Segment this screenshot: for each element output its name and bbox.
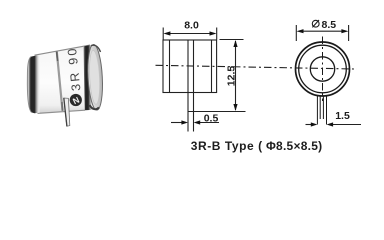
logo — [70, 94, 82, 106]
diameter symbol slash — [312, 20, 319, 27]
extension line left of lead — [316, 96, 318, 125]
arrowhead right — [341, 29, 348, 33]
extension line right — [348, 25, 350, 41]
cap line left — [169, 40, 171, 93]
left end cap — [27, 55, 39, 113]
arrowhead down — [233, 104, 237, 111]
lead wire right line — [193, 93, 195, 132]
diameter symbol circle — [312, 20, 319, 27]
lead tab dark edge — [64, 98, 67, 126]
extension line right — [216, 28, 218, 40]
extension line left — [295, 25, 297, 41]
leader line left — [171, 122, 182, 124]
svg-text:8.5: 8.5 — [322, 19, 337, 31]
arrowhead pointing left — [194, 120, 201, 124]
crosshair — [322, 37, 324, 102]
leader line right — [333, 124, 361, 126]
svg-text:1.5: 1.5 — [335, 110, 350, 122]
diameter 8.5 dimension — [296, 25, 348, 41]
arrowhead pointing left — [327, 122, 334, 126]
photo of component — [27, 44, 104, 126]
extension line right of lead — [326, 96, 328, 125]
component body (white ceramic) — [35, 45, 97, 114]
end face bottom shadow arc — [90, 105, 100, 109]
arrowhead pointing right — [311, 122, 318, 126]
arrowhead left — [297, 29, 304, 33]
inner circle — [310, 57, 334, 81]
end face inner ring — [88, 50, 101, 104]
body rectangle — [163, 40, 217, 93]
lead tab — [64, 98, 70, 126]
leader line left — [306, 124, 312, 126]
1.5 dimension — [306, 122, 362, 126]
lead wire left line — [319, 96, 321, 119]
center electrode seam — [57, 52, 63, 111]
end face ellipse — [86, 44, 104, 110]
right end cap band — [83, 45, 91, 110]
center electrode line left — [187, 40, 189, 93]
svg-text:0.5: 0.5 — [204, 113, 219, 125]
svg-text:8.0: 8.0 — [184, 20, 199, 32]
center electrode line right — [193, 40, 195, 93]
bottom outline — [38, 110, 86, 113]
left end cap rim outline — [27, 57, 31, 113]
8.0 dimension — [163, 28, 217, 40]
dimension line — [299, 30, 346, 32]
extension line bottom — [188, 111, 246, 113]
lead wire left line — [187, 93, 189, 132]
extension line left — [162, 28, 164, 40]
svg-text:12.5: 12.5 — [226, 66, 238, 87]
arrowhead right — [210, 31, 217, 35]
top outline — [35, 45, 91, 55]
end face top rim arc — [91, 45, 101, 52]
leader line right — [200, 122, 219, 124]
arrowhead pointing right — [181, 120, 188, 124]
arrowhead left — [163, 31, 170, 35]
center line dash-dot (continuous to top view) — [156, 65, 358, 69]
lead wire right line — [322, 96, 324, 119]
dimension line — [165, 33, 215, 35]
12.5 dimension — [188, 40, 246, 112]
arrowhead up — [233, 40, 237, 47]
dimension line — [235, 41, 237, 110]
extension line top — [220, 39, 244, 41]
second circle — [299, 45, 347, 93]
outer circle — [296, 42, 350, 96]
svg-text:3R-B Type (Φ8.5×8.5): 3R-B Type (Φ8.5×8.5) — [191, 139, 323, 153]
cap line right — [211, 40, 213, 93]
0.5 dimension — [171, 120, 219, 124]
